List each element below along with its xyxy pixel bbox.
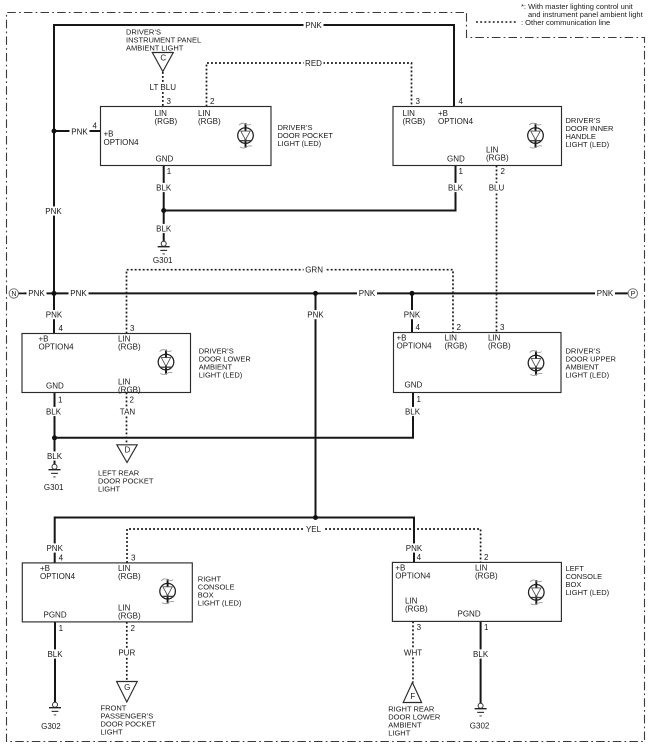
wire PNK lower trunk to console box lights (55, 518, 414, 564)
svg-text:(RGB): (RGB) (155, 117, 178, 126)
label BLK box1 pin1 (155, 183, 173, 192)
LED symbol box U1 (238, 123, 254, 148)
svg-text:2: 2 (210, 97, 215, 106)
svg-text:PNK: PNK (71, 127, 88, 136)
svg-text:4: 4 (93, 122, 98, 131)
svg-text:2: 2 (131, 624, 136, 633)
label BLK to G301 lower (46, 451, 64, 460)
svg-text:1: 1 (59, 624, 64, 633)
svg-text:4: 4 (416, 323, 421, 332)
svg-text:3: 3 (167, 97, 172, 106)
svg-text:(RGB): (RGB) (445, 342, 468, 351)
svg-text:PNK: PNK (307, 310, 324, 319)
svg-text:4: 4 (417, 553, 422, 562)
svg-text:OPTION4: OPTION4 (39, 343, 75, 352)
svg-text:YEL: YEL (306, 525, 322, 534)
box U6 left console box light (392, 562, 561, 621)
box U3 driver's door lower ambient light (22, 334, 191, 393)
connector P (628, 289, 637, 298)
svg-text:C: C (160, 54, 166, 63)
connector N (9, 289, 18, 298)
LED symbol box U6 (529, 580, 545, 605)
note: dotted line sample (476, 21, 517, 23)
svg-text:BLK: BLK (156, 224, 172, 233)
svg-text:PNK: PNK (46, 310, 63, 319)
svg-text:(RGB): (RGB) (488, 342, 511, 351)
svg-text:LIGHT (LED): LIGHT (LED) (198, 599, 242, 608)
wire TAN dotted (box3 pin 2 to triangle D) (126, 393, 128, 445)
svg-text:PNK: PNK (404, 310, 421, 319)
svg-text:GND: GND (405, 381, 423, 390)
wire LT BLU dotted (triangle C to box1 pin 3) (162, 72, 164, 107)
label PNK drop box6 (404, 543, 424, 552)
svg-text:PNK: PNK (46, 544, 63, 553)
label PNK trunk near N 2 (69, 289, 89, 298)
box U4 driver's door upper ambient light (394, 333, 562, 393)
svg-text:1: 1 (484, 623, 489, 632)
label GRN (304, 265, 325, 274)
svg-text:LIGHT: LIGHT (101, 727, 124, 736)
label BLK box5 pin1 (46, 649, 64, 658)
svg-text:OPTION4: OPTION4 (397, 342, 433, 351)
svg-text:OPTION4: OPTION4 (104, 138, 140, 147)
label BLK box3 pin1 (45, 407, 63, 416)
label BLK to G301 upper (155, 224, 173, 233)
svg-text:RED: RED (305, 59, 322, 68)
svg-text:3: 3 (131, 554, 136, 563)
svg-text:(RGB): (RGB) (405, 605, 428, 614)
label PNK trunk center (357, 289, 377, 298)
svg-text:(RGB): (RGB) (118, 612, 141, 621)
svg-text:(RGB): (RGB) (403, 117, 426, 126)
LED symbol box U5 (160, 579, 176, 604)
svg-text:(RGB): (RGB) (475, 572, 498, 581)
svg-text:G301: G301 (44, 483, 64, 492)
svg-text:(RGB): (RGB) (118, 386, 141, 395)
connector triangle F right rear door lower ambient light (403, 683, 421, 703)
svg-text:: Other communication line: : Other communication line (521, 18, 610, 27)
svg-text:BLK: BLK (448, 183, 464, 192)
wire PNK horizontal trunk N to P (25, 292, 629, 294)
svg-text:PGND: PGND (44, 611, 67, 620)
svg-text:(RGB): (RGB) (198, 117, 221, 126)
svg-text:TAN: TAN (120, 407, 136, 416)
svg-text:P: P (631, 291, 636, 298)
svg-text:LIGHT (LED): LIGHT (LED) (278, 139, 322, 148)
label WHT box6 pin3 (402, 648, 424, 657)
junction dot (BLK ground boxes 1-2) (161, 208, 166, 213)
svg-text:G302: G302 (41, 722, 61, 731)
label BLU box2 pin2 (488, 183, 506, 192)
box U5 right console box light (22, 563, 192, 622)
svg-text:OPTION4: OPTION4 (438, 117, 474, 126)
label BLK box4 pin1 (404, 407, 422, 416)
svg-text:BLK: BLK (47, 452, 63, 461)
svg-text:1: 1 (417, 395, 422, 404)
svg-text:3: 3 (130, 324, 135, 333)
label PNK branch box1 (70, 127, 90, 136)
svg-text:LIGHT (LED): LIGHT (LED) (566, 370, 610, 379)
wire BLK right console box light ground (54, 622, 56, 702)
svg-text:PUR: PUR (118, 649, 135, 658)
svg-text:PGND: PGND (458, 610, 481, 619)
svg-text:3: 3 (500, 323, 505, 332)
wire RED dotted (box1 pin 2 to box2 pin 3) (207, 63, 412, 107)
junction dot (lower trunk center) (313, 515, 318, 520)
svg-text:1: 1 (167, 167, 172, 176)
wire WHT dotted (box6 pin 3 to triangle F) (412, 621, 414, 682)
label PUR box5 pin2 (117, 648, 136, 657)
svg-text:GND: GND (156, 155, 174, 164)
box U1 driver's door pocket light (101, 107, 272, 166)
svg-text:BLU: BLU (489, 183, 505, 192)
wire BLK left console box light ground (480, 621, 482, 703)
connector triangle G front passenger's door pocket light (117, 682, 138, 703)
wire PNK center drop to lower trunk (315, 293, 317, 517)
junction dot (PNK branch box1) (52, 129, 57, 134)
label PNK trunk near N 1 (27, 289, 47, 298)
svg-text:GND: GND (447, 155, 465, 164)
svg-text:PNK: PNK (359, 289, 376, 298)
svg-text:1: 1 (58, 396, 63, 405)
svg-text:3: 3 (417, 623, 422, 632)
connector triangle C driver's instrument panel ambient light (152, 53, 173, 72)
label PNK drop box4 (402, 310, 422, 319)
svg-text:BLK: BLK (405, 407, 421, 416)
ground G301 (boxes 1-2) (158, 241, 170, 254)
svg-text:G302: G302 (470, 722, 490, 731)
label PNK trunk near P (595, 289, 615, 298)
svg-text:F: F (410, 692, 415, 701)
svg-text:2: 2 (484, 553, 489, 562)
svg-text:3: 3 (416, 97, 421, 106)
svg-text:LIGHT: LIGHT (98, 485, 121, 494)
svg-text:LIGHT: LIGHT (388, 729, 411, 738)
svg-text:PNK: PNK (597, 289, 614, 298)
svg-text:WHT: WHT (404, 649, 422, 658)
svg-text:LIGHT (LED): LIGHT (LED) (566, 140, 610, 149)
label PNK drop box5 (45, 543, 65, 552)
svg-text:OPTION4: OPTION4 (40, 572, 76, 581)
box U2 driver's door inner handle light (393, 107, 562, 166)
label PNK drop box3 (44, 310, 64, 319)
LED symbol box U2 (528, 123, 544, 148)
wire PNK branch to driver's door pocket light pin 4 (54, 130, 101, 132)
svg-text:LIGHT (LED): LIGHT (LED) (566, 588, 610, 597)
svg-text:(RGB): (RGB) (486, 154, 509, 163)
label TAN box3 pin2 (118, 407, 137, 416)
wire PUR dotted (box5 pin 2 to triangle G) (126, 622, 128, 682)
label PNK drop center (306, 310, 326, 319)
svg-text:4: 4 (59, 324, 64, 333)
svg-text:N: N (11, 291, 16, 298)
svg-text:LT BLU: LT BLU (150, 83, 177, 92)
wire PNK drop to driver's door upper ambient light pin 4 (411, 293, 413, 332)
label PNK left vertical (44, 206, 64, 215)
wire BLK ground link boxes 1-2 (164, 166, 456, 242)
wire BLU dotted (box2 pin 2 to box4 pin 3) (496, 166, 498, 333)
svg-text:(RGB): (RGB) (118, 343, 141, 352)
svg-text:GND: GND (46, 382, 64, 391)
svg-text:OPTION4: OPTION4 (395, 572, 431, 581)
svg-text:GRN: GRN (305, 266, 323, 275)
junction dot (trunk right) (410, 291, 415, 296)
svg-text:LIGHT (LED): LIGHT (LED) (199, 371, 243, 380)
svg-text:(RGB): (RGB) (118, 572, 141, 581)
svg-text:D: D (125, 446, 131, 455)
svg-text:BLK: BLK (156, 183, 172, 192)
ground G301 (boxes 3-4) (49, 464, 61, 477)
junction dot (trunk left) (52, 291, 57, 296)
svg-text:PNK: PNK (305, 21, 322, 30)
svg-text:2: 2 (501, 167, 506, 176)
svg-text:BLK: BLK (47, 650, 63, 659)
label BLK box2 pin1 (447, 183, 465, 192)
svg-text:PNK: PNK (45, 207, 62, 216)
svg-text:G301: G301 (153, 256, 173, 265)
svg-text:BLK: BLK (473, 650, 489, 659)
wire YEL dotted (box5 pin 3 to box6 pin 2) (127, 529, 481, 563)
svg-text:4: 4 (459, 97, 464, 106)
LED symbol box U3 (158, 350, 174, 375)
svg-text:2: 2 (457, 323, 462, 332)
junction dot (trunk center) (313, 291, 318, 296)
svg-text:AMBIENT LIGHT: AMBIENT LIGHT (126, 44, 184, 53)
connector triangle D left rear door pocket light (117, 445, 137, 463)
label LT BLU (148, 82, 178, 91)
junction dot (BLK ground boxes 3-4) (52, 435, 57, 440)
svg-text:BLK: BLK (46, 407, 62, 416)
wire GRN dotted (box3 pin 3 to box4 pin 2) (127, 270, 454, 334)
wire BLK ground link boxes 3-4 (55, 393, 414, 465)
label BLK box6 pin1 (472, 649, 490, 658)
svg-text:PNK: PNK (28, 289, 45, 298)
svg-text:PNK: PNK (406, 544, 423, 553)
LED symbol box U4 (528, 351, 544, 376)
wire PNK main feed (top trunk to boxes) (54, 25, 454, 334)
label YEL (304, 524, 323, 533)
svg-text:PNK: PNK (70, 289, 87, 298)
svg-text:G: G (124, 683, 130, 692)
svg-text:1: 1 (459, 167, 464, 176)
label RED (304, 58, 324, 67)
ground G302 (box 6) (475, 703, 487, 716)
svg-text:4: 4 (59, 554, 64, 563)
svg-text:2: 2 (130, 396, 135, 405)
label PNK top trunk (304, 20, 324, 29)
ground G302 (box 5) (49, 702, 61, 715)
